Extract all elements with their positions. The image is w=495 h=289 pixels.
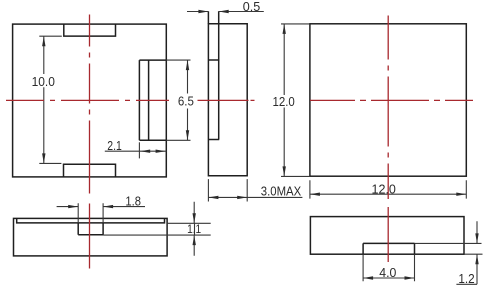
view1 top notch — [64, 24, 116, 36]
arrow 3.0MAX left — [208, 196, 218, 199]
view5 bottom notch — [363, 243, 414, 254]
dim 1.2 top extension — [415, 242, 482, 244]
dim 1.8 lines — [57, 206, 145, 208]
svg-text:3.0MAX: 3.0MAX — [261, 184, 302, 199]
dim 12.0 horizontal extensions — [310, 180, 466, 198]
dim 2.1 left extension — [138, 142, 140, 158]
dim 10.0 extension lines — [39, 36, 62, 163]
svg-text:12.0: 12.0 — [273, 94, 295, 109]
dim 10.0 line — [43, 36, 45, 163]
svg-text:12.0: 12.0 — [372, 182, 396, 197]
arrow 0.5 left — [198, 10, 208, 13]
svg-text:1.2: 1.2 — [458, 271, 474, 286]
dim 1.2 bottom extension — [464, 253, 483, 255]
dim 6.5 extension lines — [166, 60, 190, 140]
dim 12.0 vertical line — [283, 24, 285, 177]
view3 outline: front view square — [310, 24, 466, 176]
dim 3.0MAX extensions — [208, 179, 247, 201]
view5 outline: bottom-right base bar — [310, 217, 464, 255]
arrow 1.1 top — [193, 213, 196, 223]
dim 2.1 leader and line — [105, 150, 167, 152]
view4 outline: bottom-left base bar — [14, 218, 168, 256]
arrow 1.8 right — [103, 205, 113, 208]
arrow 6.5 bottom — [186, 130, 189, 140]
arrow 1.1 bottom — [193, 235, 196, 245]
svg-text:4.0: 4.0 — [379, 265, 396, 280]
view1 side terminal — [139, 60, 166, 140]
centerline vertical view3 — [387, 16, 389, 200]
centerline vertical view1 — [89, 15, 91, 271]
arrow 12.0v top — [283, 24, 286, 34]
dim 0.5 lines — [187, 11, 264, 13]
svg-text:10.0: 10.0 — [32, 74, 55, 89]
view4 top strip — [17, 218, 165, 223]
dim 1.2 arrow lines — [476, 221, 478, 284]
arrow 0.5 right — [219, 10, 229, 13]
view1 outline: top view square — [13, 24, 167, 177]
svg-text:1.1: 1.1 — [187, 222, 201, 236]
view2 outline: side view body — [208, 24, 247, 176]
svg-text:6.5: 6.5 — [178, 94, 194, 109]
arrow 2.1 right — [156, 150, 166, 153]
arrow 10.0 bottom — [42, 153, 45, 163]
view2 left extension above top — [207, 11, 209, 23]
arrow 6.5 top — [186, 60, 189, 70]
svg-text:0.5: 0.5 — [243, 0, 260, 14]
arrow 12.0h left — [310, 193, 320, 196]
arrow 4.0 right — [405, 276, 415, 279]
view1 bottom notch — [64, 164, 116, 177]
svg-text:1.8: 1.8 — [125, 194, 141, 209]
arrow 12.0h right — [456, 193, 466, 196]
view2 pad top divider — [208, 59, 219, 61]
view2 side pad inner line — [218, 11, 220, 139]
arrow 10.0 top — [42, 36, 45, 46]
view4 center tab — [78, 223, 103, 235]
arrow 2.1 left — [140, 150, 150, 153]
arrow 12.0v bottom — [283, 166, 286, 176]
arrow 1.2 top — [475, 233, 478, 243]
dim 1.1 arrow lines — [193, 202, 195, 256]
arrow 1.8 left — [68, 205, 78, 208]
svg-text:2.1: 2.1 — [107, 138, 122, 153]
centerline horizontal main — [6, 99, 169, 101]
dim 6.5 line — [187, 60, 189, 140]
dim 4.0 line — [363, 277, 414, 279]
dim 3.0MAX line and text underline — [208, 196, 302, 198]
dim 12.0 vertical extensions — [281, 24, 310, 177]
arrow 3.0MAX right — [237, 196, 247, 199]
arrow 4.0 left — [363, 276, 373, 279]
dim 4.0 extensions — [363, 254, 414, 281]
dim 1.2 text underline — [456, 283, 477, 285]
dim 1.8 tab extensions — [78, 203, 103, 223]
dim 12.0 horizontal line — [310, 193, 466, 195]
dim 1.1 extension lines — [103, 223, 211, 235]
view2 pad bottom divider — [208, 139, 219, 141]
arrow 1.2 bottom — [475, 254, 478, 264]
